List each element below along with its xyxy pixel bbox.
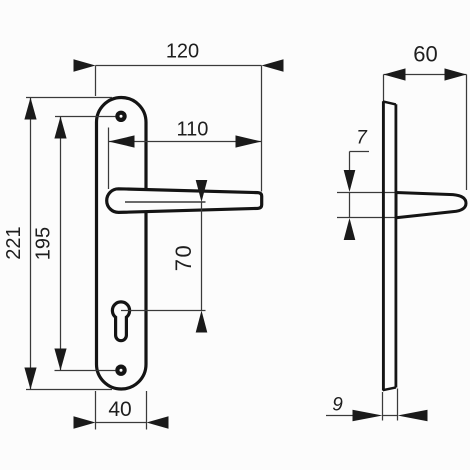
svg-text:40: 40 bbox=[108, 398, 131, 421]
svg-text:9: 9 bbox=[332, 395, 343, 416]
svg-text:195: 195 bbox=[33, 227, 55, 260]
svg-text:110: 110 bbox=[177, 119, 209, 141]
svg-text:221: 221 bbox=[3, 226, 25, 259]
svg-text:60: 60 bbox=[413, 42, 437, 67]
svg-text:120: 120 bbox=[166, 41, 199, 63]
svg-text:7: 7 bbox=[356, 128, 368, 149]
svg-text:70: 70 bbox=[171, 244, 196, 271]
